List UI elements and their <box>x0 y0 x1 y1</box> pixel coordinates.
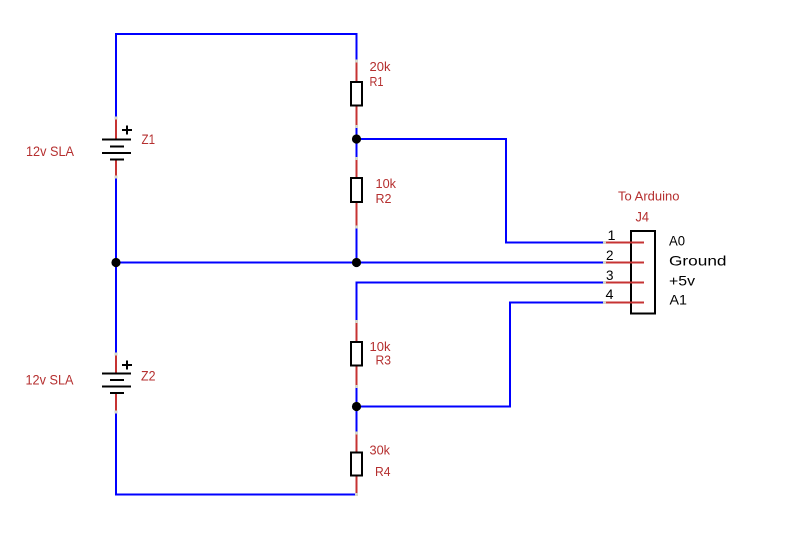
wire left rail Z2 to bottom <box>116 412 357 495</box>
resistor R3 body <box>351 342 362 366</box>
resistor R3 pin bottom <box>356 366 358 387</box>
wire pin 3 to R3 top <box>357 283 605 322</box>
battery Z1 pin bottom <box>115 160 117 178</box>
pin end marker R4 bottom <box>355 493 358 496</box>
resistor R4 pin top <box>356 433 358 453</box>
pin end marker R2 top <box>355 157 358 160</box>
pin end marker Z1 top <box>115 117 118 120</box>
svg-text:30k: 30k <box>370 443 391 458</box>
resistor R2 body <box>351 178 362 202</box>
pin end marker J4 pin 2 <box>603 261 606 264</box>
pin end marker J4 pin 3 <box>603 281 606 284</box>
pin end marker R3 top <box>355 320 358 323</box>
junction ground rail middle <box>352 258 361 267</box>
svg-text:Z2: Z2 <box>141 368 156 384</box>
svg-text:10k: 10k <box>376 176 397 191</box>
pin end marker J4 pin 1 <box>603 241 606 244</box>
wire ground rail to pin 2 <box>116 262 604 264</box>
pin end marker R2 bottom <box>355 226 358 229</box>
svg-text:20k: 20k <box>370 59 391 74</box>
battery Z2 pin bottom <box>115 393 117 412</box>
wire R1 bottom to node A0 <box>356 127 358 140</box>
resistor R2 pin top <box>356 159 358 180</box>
wire node A1 to R4 top <box>356 407 358 434</box>
junction node A1 (R3/R4) <box>352 402 361 411</box>
svg-text:J4: J4 <box>636 209 650 225</box>
resistor R4 body <box>351 453 362 476</box>
svg-text:A1: A1 <box>670 292 688 308</box>
svg-text:A0: A0 <box>669 233 685 249</box>
connector J4 body <box>631 231 655 314</box>
svg-text:1: 1 <box>608 227 616 243</box>
resistor R2 pin bottom <box>356 202 358 227</box>
wire R2 bottom to ground rail <box>356 227 358 263</box>
battery Z2 plates <box>102 374 131 394</box>
wire node A1 to pin 4 <box>357 303 605 407</box>
svg-text:3: 3 <box>606 267 614 283</box>
svg-text:4: 4 <box>606 286 614 302</box>
connector J4 pin 3 <box>605 282 644 284</box>
resistor R3 pin top <box>356 322 358 343</box>
pin end marker R3 bottom <box>355 385 358 388</box>
battery Z2 plus sign <box>122 361 132 370</box>
junction ground rail left <box>111 258 120 267</box>
wire node A0 to R2 top <box>356 139 358 159</box>
svg-text:+5v: +5v <box>669 273 695 289</box>
resistor R4 pin bottom <box>356 476 358 495</box>
junction node A0 (R1/R2) <box>352 134 361 143</box>
battery Z2 pin top <box>115 354 117 374</box>
svg-text:R1: R1 <box>370 74 384 89</box>
svg-text:Ground: Ground <box>669 253 727 269</box>
connector J4 pin 4 <box>605 302 644 304</box>
svg-text:2: 2 <box>606 247 614 263</box>
pin end marker R1 bottom <box>355 125 358 128</box>
svg-text:12v SLA: 12v SLA <box>26 143 75 159</box>
connector J4 pin 2 <box>605 262 644 264</box>
battery Z1 pin top <box>115 118 117 140</box>
wire R3 bottom to node A1 <box>356 387 358 407</box>
svg-text:Z1: Z1 <box>142 131 156 147</box>
pin end marker Z2 top <box>115 353 118 356</box>
battery Z1 plates <box>102 140 131 160</box>
svg-text:R4: R4 <box>375 464 391 479</box>
wire node A0 to pin 1 <box>357 139 605 243</box>
svg-text:R3: R3 <box>376 353 392 368</box>
battery Z1 plus sign <box>122 126 132 135</box>
svg-text:R2: R2 <box>376 191 392 206</box>
resistor R1 pin bottom <box>356 106 358 127</box>
pin end marker Z1 bottom <box>115 176 118 179</box>
wire left rail Z1 to Z2 <box>115 177 117 354</box>
resistor R1 pin top <box>356 61 358 82</box>
pin end marker R4 top <box>355 432 358 435</box>
wire top rail <box>116 34 357 118</box>
svg-text:To Arduino: To Arduino <box>618 189 680 204</box>
pin end marker Z2 bottom <box>115 411 118 414</box>
pin end marker J4 pin 4 <box>603 301 606 304</box>
connector J4 pin 1 <box>605 242 644 244</box>
resistor R1 body <box>351 82 362 106</box>
pin end marker R1 top <box>355 60 358 63</box>
svg-text:12v SLA: 12v SLA <box>26 372 75 388</box>
